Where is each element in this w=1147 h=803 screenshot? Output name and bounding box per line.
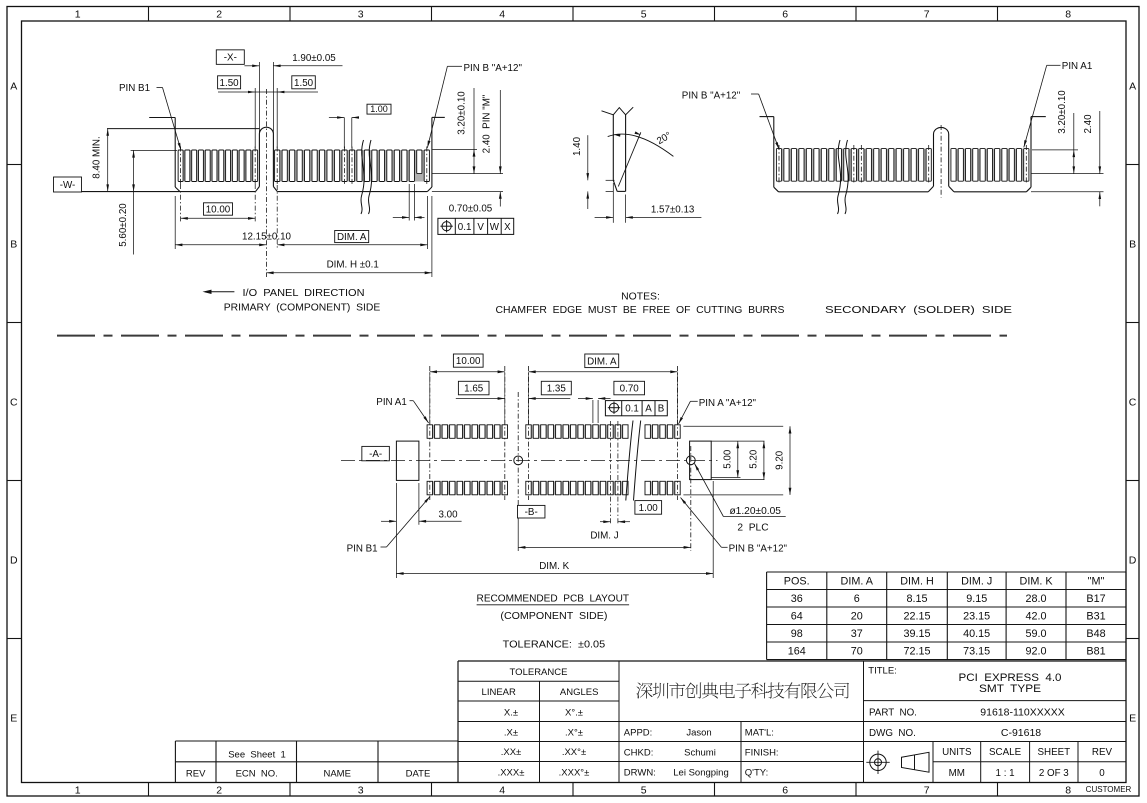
svg-text:UNITS: UNITS xyxy=(942,747,972,758)
svg-text:D: D xyxy=(1129,554,1137,566)
notes text xyxy=(496,291,785,316)
caption RECOMMENDED PCB LAYOUT xyxy=(477,594,630,605)
svg-text:6: 6 xyxy=(854,593,860,605)
svg-text:PIN B "A+12": PIN B "A+12" xyxy=(682,90,741,101)
dimension 1.50 left xyxy=(218,76,267,148)
dimension DIM. J xyxy=(518,531,691,549)
svg-text:7: 7 xyxy=(924,785,930,797)
svg-text:59.0: 59.0 xyxy=(1026,628,1047,640)
secondary view break squiggle xyxy=(837,140,848,214)
svg-text:APPD:: APPD: xyxy=(624,728,653,739)
svg-text:1.90±0.05: 1.90±0.05 xyxy=(292,53,336,64)
key hole centerline vertical xyxy=(517,392,519,551)
svg-text:.XX°±: .XX°± xyxy=(562,747,586,758)
svg-text:B: B xyxy=(658,403,665,414)
svg-text:72.15: 72.15 xyxy=(903,646,930,658)
dimension DIM. A layout xyxy=(529,354,678,424)
svg-text:DIM. H ±0.1: DIM. H ±0.1 xyxy=(327,260,379,271)
svg-text:8.40 MIN.: 8.40 MIN. xyxy=(92,136,103,178)
zone column numbers top xyxy=(75,9,1071,21)
dimension 1.00 layout xyxy=(600,421,662,525)
dimension 10.00 xyxy=(181,184,256,222)
company name chinese characters xyxy=(636,682,849,698)
svg-text:SHEET: SHEET xyxy=(1037,747,1070,758)
dimension 5.60±0.20 xyxy=(118,150,177,254)
svg-text:W: W xyxy=(490,222,500,233)
svg-text:.XXX±: .XXX± xyxy=(498,767,525,778)
pcb layout mounting hole left xyxy=(514,456,523,465)
svg-text:0.70±0.05: 0.70±0.05 xyxy=(449,204,493,215)
svg-text:A: A xyxy=(1129,80,1136,92)
tolerance table text xyxy=(482,667,599,778)
dimension 1.90±0.05 xyxy=(244,53,342,134)
svg-text:3.20±0.10: 3.20±0.10 xyxy=(457,91,468,135)
pcb layout pads right group xyxy=(526,366,681,500)
svg-text:B17: B17 xyxy=(1086,593,1105,605)
svg-text:6: 6 xyxy=(782,785,788,797)
dimension 1.00 primary view xyxy=(329,104,391,148)
svg-text:DIM. K: DIM. K xyxy=(1020,576,1054,588)
svg-text:V: V xyxy=(477,222,484,233)
secondary view body outline xyxy=(760,117,1046,192)
datum -A- box xyxy=(362,446,390,460)
svg-text:1.40: 1.40 xyxy=(572,136,583,156)
zone row letters xyxy=(10,80,1137,724)
svg-text:98: 98 xyxy=(791,628,803,640)
svg-text:NAME: NAME xyxy=(323,769,350,780)
third angle projection symbol xyxy=(866,751,929,774)
dimension 3.00 xyxy=(381,483,462,578)
pcb layout left body rectangle xyxy=(396,441,419,480)
key slot centerline xyxy=(265,89,267,277)
svg-text:70: 70 xyxy=(851,646,863,658)
svg-text:2 PLC: 2 PLC xyxy=(737,523,768,534)
dimension 1.57±0.13 xyxy=(595,183,702,223)
svg-text:Jason: Jason xyxy=(686,728,711,739)
svg-text:Schumi: Schumi xyxy=(684,747,716,758)
label PIN A A+12 layout with leader xyxy=(679,398,757,424)
svg-text:B81: B81 xyxy=(1086,646,1105,658)
revision table grid xyxy=(175,741,458,783)
svg-text:A: A xyxy=(645,403,652,414)
svg-text:MM: MM xyxy=(949,768,965,779)
svg-text:RECOMMENDED PCB LAYOUT: RECOMMENDED PCB LAYOUT xyxy=(477,594,630,605)
dimension 8.40 MIN. xyxy=(92,129,110,192)
caption TOLERANCE ±0.05 xyxy=(503,639,606,650)
svg-text:2: 2 xyxy=(216,9,222,21)
svg-text:92.0: 92.0 xyxy=(1026,646,1047,658)
svg-text:20: 20 xyxy=(851,611,863,623)
svg-text:CHAMFER EDGE MUST BE FREE: CHAMFER EDGE MUST BE FREE OF CUTTING BUR… xyxy=(496,305,785,316)
label PIN B1 with leader xyxy=(119,83,181,150)
dimension 2.40 secondary xyxy=(1031,111,1104,206)
svg-text:POS.: POS. xyxy=(784,576,810,588)
datum -X- box xyxy=(216,50,244,65)
dimension DIM. A xyxy=(277,185,427,249)
svg-text:4: 4 xyxy=(499,785,505,797)
svg-text:B31: B31 xyxy=(1086,611,1105,623)
svg-text:73.15: 73.15 xyxy=(963,646,990,658)
zone column numbers bottom xyxy=(75,785,1071,797)
svg-text:6: 6 xyxy=(782,9,788,21)
svg-text:See Sheet 1: See Sheet 1 xyxy=(228,749,286,760)
CUSTOMER label xyxy=(1086,785,1132,794)
svg-text:7: 7 xyxy=(924,9,930,21)
svg-text:SMT TYPE: SMT TYPE xyxy=(979,683,1041,695)
svg-text:-X-: -X- xyxy=(224,53,237,64)
svg-text:91618-110XXXXX: 91618-110XXXXX xyxy=(980,706,1064,718)
secondary view key centerline xyxy=(940,125,942,198)
title block grid xyxy=(458,661,1126,783)
svg-text:1.00: 1.00 xyxy=(370,104,388,114)
svg-text:SECONDARY (SOLDER) SIDE: SECONDARY (SOLDER) SIDE xyxy=(825,305,1012,316)
pcb layout break squiggle xyxy=(626,421,641,501)
dimension 1.50 right xyxy=(266,76,318,148)
primary view body outline xyxy=(82,117,445,191)
pcb layout mounting hole right xyxy=(686,456,695,465)
drawing number row xyxy=(869,727,1041,739)
svg-text:TOLERANCE: TOLERANCE xyxy=(510,667,568,678)
svg-text:C-91618: C-91618 xyxy=(1001,727,1041,739)
svg-text:MAT'L:: MAT'L: xyxy=(745,728,774,739)
position tolerance frame 0.1 A B xyxy=(605,401,667,416)
svg-text:1.35: 1.35 xyxy=(547,384,567,395)
svg-text:TOLERANCE: ±0.05: TOLERANCE: ±0.05 xyxy=(503,639,606,650)
svg-text:36: 36 xyxy=(791,593,803,605)
dimension 3.20±0.10 PIN M right side xyxy=(432,88,503,174)
svg-text:22.15: 22.15 xyxy=(903,611,930,623)
svg-text:PRIMARY (COMPONENT) SIDE: PRIMARY (COMPONENT) SIDE xyxy=(224,303,381,314)
svg-text:8.15: 8.15 xyxy=(906,593,927,605)
svg-text:B: B xyxy=(1129,238,1136,250)
dimension 1.65 xyxy=(456,381,505,400)
svg-text:37: 37 xyxy=(851,628,863,640)
svg-text:4: 4 xyxy=(499,9,505,21)
svg-text:.X°±: .X°± xyxy=(565,727,583,738)
approval rows text xyxy=(624,728,779,779)
dimension 0.70±0.05 xyxy=(393,184,493,221)
section separator chain line xyxy=(57,335,1007,337)
primary view pin contacts right group xyxy=(274,147,430,186)
dimension 5.20 xyxy=(690,441,766,480)
svg-text:(COMPONENT SIDE): (COMPONENT SIDE) xyxy=(500,611,607,622)
secondary view pin contacts short group xyxy=(951,145,1030,185)
svg-text:40.15: 40.15 xyxy=(963,628,990,640)
caption SECONDARY (SOLDER) SIDE xyxy=(825,305,1012,316)
svg-text:CUSTOMER: CUSTOMER xyxy=(1086,785,1132,794)
svg-text:0.1: 0.1 xyxy=(458,222,472,233)
primary view pin contacts left group xyxy=(178,147,258,186)
label PIN A1 with leader xyxy=(1024,61,1093,148)
dimension 2.40 PIN M right side xyxy=(432,90,503,207)
svg-text:PIN B1: PIN B1 xyxy=(119,83,150,94)
svg-text:2.40: 2.40 xyxy=(1083,114,1094,134)
svg-text:ECN NO.: ECN NO. xyxy=(236,769,278,780)
caption COMPONENT SIDE xyxy=(500,611,607,622)
svg-text:B: B xyxy=(10,238,17,250)
svg-text:TITLE:: TITLE: xyxy=(868,666,897,677)
svg-text:DIM. A: DIM. A xyxy=(587,357,617,368)
positions table text xyxy=(784,576,1106,658)
detail view card edge outline xyxy=(602,107,634,191)
svg-text:PIN B "A+12": PIN B "A+12" xyxy=(729,544,788,555)
svg-text:PIN B1: PIN B1 xyxy=(347,543,378,554)
svg-text:NOTES:: NOTES: xyxy=(621,291,660,302)
label PIN B A+12 layout with leader xyxy=(681,498,788,555)
title text PCI EXPRESS 4.0 SMT TYPE xyxy=(868,666,1061,696)
svg-text:0.1: 0.1 xyxy=(625,403,639,414)
svg-text:CHKD:: CHKD: xyxy=(624,747,654,758)
units scale sheet rev cells xyxy=(942,747,1112,779)
svg-text:1.65: 1.65 xyxy=(464,384,484,395)
svg-text:.X±: .X± xyxy=(504,727,518,738)
svg-text:5.20: 5.20 xyxy=(749,449,760,469)
svg-text:1.00: 1.00 xyxy=(639,503,659,514)
dimension 9.20 xyxy=(683,426,791,495)
datum -B- box xyxy=(517,505,545,518)
svg-text:5.60±0.20: 5.60±0.20 xyxy=(118,203,129,247)
svg-text:10.00: 10.00 xyxy=(456,356,481,367)
angle dimension 20 degrees xyxy=(608,130,674,156)
svg-text:DIM. K: DIM. K xyxy=(539,561,569,572)
svg-text:28.0: 28.0 xyxy=(1026,593,1047,605)
svg-text:9.15: 9.15 xyxy=(966,593,987,605)
svg-text:PIN B "A+12": PIN B "A+12" xyxy=(464,63,523,74)
svg-text:1 : 1: 1 : 1 xyxy=(996,768,1015,779)
label hole diameter 1.20±0.05 2 PLC xyxy=(695,464,786,534)
label PIN B A+12 secondary with leader xyxy=(682,90,779,149)
svg-text:1: 1 xyxy=(75,9,81,21)
svg-text:Q'TY:: Q'TY: xyxy=(745,767,768,778)
svg-text:5.00: 5.00 xyxy=(723,449,734,469)
detail chamfer angle line xyxy=(618,132,641,186)
dimension 5.00 xyxy=(711,441,764,477)
svg-text:2: 2 xyxy=(216,785,222,797)
svg-text:8: 8 xyxy=(1065,785,1071,797)
dimension 0.70 layout xyxy=(578,381,645,423)
label PIN A1 layout with leader xyxy=(376,397,428,423)
svg-text:9.20: 9.20 xyxy=(775,450,786,470)
dimension 10.00 layout xyxy=(430,354,505,424)
svg-text:39.15: 39.15 xyxy=(903,628,930,640)
svg-text:I/O PANEL DIRECTION: I/O PANEL DIRECTION xyxy=(243,288,365,299)
revision table text xyxy=(186,749,430,779)
label PIN B1 layout with leader xyxy=(347,497,430,555)
pcb layout right tab rectangle xyxy=(690,441,712,480)
svg-text:Lei Songping: Lei Songping xyxy=(673,767,728,778)
svg-text:DIM. A: DIM. A xyxy=(841,576,874,588)
svg-text:DIM. J: DIM. J xyxy=(961,576,992,588)
dimension 1.40 xyxy=(572,135,615,209)
svg-text:LINEAR: LINEAR xyxy=(482,687,516,698)
svg-text:PIN A1: PIN A1 xyxy=(1062,61,1093,72)
svg-text:A: A xyxy=(10,80,17,92)
dimension 1.35 xyxy=(529,381,572,400)
datum -W- box xyxy=(54,177,82,192)
svg-text:REV: REV xyxy=(1092,747,1113,758)
svg-text:3: 3 xyxy=(358,785,364,797)
svg-text:.XXX°±: .XXX°± xyxy=(559,767,590,778)
svg-text:8: 8 xyxy=(1065,9,1071,21)
svg-text:3: 3 xyxy=(358,9,364,21)
svg-text:1.57±0.13: 1.57±0.13 xyxy=(651,204,695,215)
svg-text:DIM. A: DIM. A xyxy=(337,232,367,243)
svg-text:SCALE: SCALE xyxy=(989,747,1022,758)
dimension 3.20±0.10 secondary xyxy=(1031,90,1104,174)
svg-text:3.00: 3.00 xyxy=(438,510,458,521)
dimension DIM. K xyxy=(396,481,713,578)
svg-text:1.50: 1.50 xyxy=(220,78,240,89)
svg-text:2.40 PIN "M": 2.40 PIN "M" xyxy=(482,94,493,153)
svg-text:-B-: -B- xyxy=(525,507,538,518)
svg-text:12.15±0.10: 12.15±0.10 xyxy=(242,232,292,243)
svg-text:0.70: 0.70 xyxy=(620,384,640,395)
svg-text:.XX±: .XX± xyxy=(501,747,522,758)
svg-text:1: 1 xyxy=(75,785,81,797)
svg-text:X.±: X.± xyxy=(504,707,518,718)
svg-text:X: X xyxy=(504,222,511,233)
secondary view pin contacts long group xyxy=(776,145,932,185)
svg-text:"M": "M" xyxy=(1088,576,1105,588)
I/O PANEL DIRECTION arrow and text xyxy=(203,288,365,299)
svg-text:B48: B48 xyxy=(1086,628,1105,640)
svg-text:1.50: 1.50 xyxy=(294,78,314,89)
svg-text:-A-: -A- xyxy=(369,449,382,460)
svg-text:PIN A "A+12": PIN A "A+12" xyxy=(699,398,757,409)
position tolerance frame 0.1 V W X xyxy=(438,218,514,234)
part number row xyxy=(869,706,1065,718)
label PIN B A+12 with leader xyxy=(427,63,522,148)
right hole centerline vertical xyxy=(690,446,692,551)
svg-text:C: C xyxy=(10,396,18,408)
dimension DIM. H ±0.1 xyxy=(266,196,432,277)
svg-text:DIM. H: DIM. H xyxy=(900,576,934,588)
svg-text:ø1.20±0.05: ø1.20±0.05 xyxy=(729,506,781,517)
svg-text:PART NO.: PART NO. xyxy=(869,707,917,718)
svg-text:2 OF 3: 2 OF 3 xyxy=(1039,768,1069,779)
svg-text:10.00: 10.00 xyxy=(206,205,231,216)
svg-text:42.0: 42.0 xyxy=(1026,611,1047,623)
svg-text:64: 64 xyxy=(791,611,803,623)
svg-text:REV: REV xyxy=(186,769,206,780)
primary view break squiggle xyxy=(361,140,372,214)
pcb layout horizontal centerline xyxy=(341,459,718,461)
svg-text:E: E xyxy=(10,712,17,724)
svg-text:0: 0 xyxy=(1099,768,1105,779)
svg-text:23.15: 23.15 xyxy=(963,611,990,623)
svg-text:C: C xyxy=(1129,396,1137,408)
svg-text:-W-: -W- xyxy=(60,180,76,191)
svg-text:5: 5 xyxy=(641,785,647,797)
caption PRIMARY (COMPONENT) SIDE xyxy=(224,303,381,314)
svg-text:164: 164 xyxy=(788,646,806,658)
svg-text:D: D xyxy=(10,554,18,566)
svg-text:ANGLES: ANGLES xyxy=(560,687,599,698)
svg-text:DATE: DATE xyxy=(406,769,431,780)
svg-text:FINISH:: FINISH: xyxy=(745,747,779,758)
svg-text:DIM. J: DIM. J xyxy=(590,531,618,542)
pcb layout pads left group xyxy=(427,366,508,500)
svg-text:DWG NO.: DWG NO. xyxy=(869,728,916,739)
svg-text:5: 5 xyxy=(641,9,647,21)
svg-text:DRWN:: DRWN: xyxy=(624,767,656,778)
svg-text:3.20±0.10: 3.20±0.10 xyxy=(1057,90,1068,134)
svg-text:PIN A1: PIN A1 xyxy=(376,397,407,408)
svg-text:E: E xyxy=(1129,712,1136,724)
svg-text:X°.±: X°.± xyxy=(565,707,583,718)
dimension 12.15±0.10 xyxy=(175,196,291,249)
positions table grid xyxy=(767,572,1126,660)
